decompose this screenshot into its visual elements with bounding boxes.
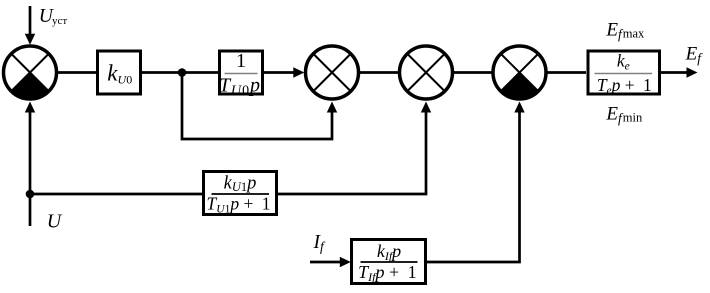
svg-text:1: 1 xyxy=(236,50,246,72)
svg-text:U: U xyxy=(47,211,63,233)
svg-text:уст: уст xyxy=(52,15,67,27)
svg-text:TIfp + 1: TIfp + 1 xyxy=(358,262,417,284)
svg-text:Tep + 1: Tep + 1 xyxy=(597,75,652,97)
svg-text:TU1p + 1: TU1p + 1 xyxy=(207,194,271,216)
